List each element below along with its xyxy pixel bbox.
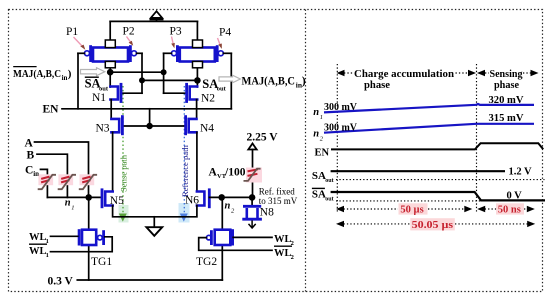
svg-text:50 ns: 50 ns [498,205,521,216]
wire EN horizontal [62,108,231,110]
svg-text:Sensing: Sensing [490,69,524,80]
FTJ device on A [79,174,97,189]
label Cin [25,164,39,178]
wire P3P4 drain to SAout node [196,67,198,87]
svg-text:1: 1 [71,205,74,212]
label n2 [225,201,236,215]
FTJ device on B [58,174,76,189]
junction SAoutbar-P3 [161,69,167,75]
svg-text:WL: WL [29,246,47,257]
ground arrow N8 [249,221,256,229]
VDD supply triangle [150,11,164,21]
svg-text:out: out [325,178,333,184]
pointer arrow P3 [171,37,175,49]
svg-text:A: A [25,137,34,149]
svg-text:Sense path: Sense path [119,154,129,192]
svg-text:in: in [62,74,68,82]
transistor N5 [102,190,113,207]
sense path dashed line [119,86,129,223]
svg-text:TG2: TG2 [196,256,217,268]
wire N1 source to N3 drain [110,100,112,120]
node n2 [218,194,225,201]
waveform n2 [324,124,534,133]
svg-text:Reference path: Reference path [180,145,190,197]
transmission gate TG2 [207,230,233,245]
svg-text:SA: SA [312,188,326,200]
svg-text:N3: N3 [96,122,110,134]
transistor N2 [187,84,198,101]
wire P3 gate riser [163,53,165,93]
svg-text:B: B [27,150,35,162]
duration arrow 50 us [336,203,472,215]
svg-text:N2: N2 [201,93,215,105]
pointer arrow P2 [127,37,134,46]
label WL1bar [29,244,49,259]
label n2 [313,129,324,143]
block arrow to SAoutbar [81,68,105,76]
wire SAoutbar to N1 drain [110,86,118,88]
svg-text:out: out [325,196,333,202]
label n1 [65,198,75,212]
svg-text:TG1: TG1 [91,256,112,268]
svg-text:2.25 V: 2.25 V [247,131,279,143]
label AVT/100 [209,167,246,180]
svg-text:Charge accumulation: Charge accumulation [354,69,454,80]
svg-text:0.3 V: 0.3 V [48,275,74,287]
svg-text:phase: phase [364,80,390,91]
svg-text:EN: EN [315,148,330,159]
transistor pair P3 P4 [164,40,232,68]
svg-text:out: out [217,86,227,93]
transistor N1 [110,84,121,101]
wire N3 N4 gate rail [123,125,185,127]
svg-text:P4: P4 [219,27,231,39]
label SAout timing [312,170,334,184]
svg-text:n: n [313,129,319,140]
svg-text:EN: EN [43,103,60,115]
svg-text:Ref. fixed: Ref. fixed [259,187,295,197]
sensing phase label and arrows [477,69,539,91]
phase boundary dashed guides [336,64,338,212]
svg-text:n: n [65,198,71,209]
svg-text:0 V: 0 V [507,190,523,201]
ground symbol [146,217,162,236]
svg-text:phase: phase [494,80,519,91]
svg-text:P3: P3 [170,26,182,38]
waveform n1 [324,104,534,112]
label Ref fixed to 315 mV [259,187,298,207]
label SAoutbar [85,77,109,93]
wire WL1bar wrap to TG1 right gate [51,237,113,252]
svg-text:300 mV: 300 mV [324,102,357,113]
wire EN riser to P1 gate [77,53,79,109]
svg-text:N4: N4 [200,122,214,134]
svg-text:): ) [302,73,306,87]
pointer arrow P4 [218,38,222,49]
svg-text:300 mV: 300 mV [324,123,357,134]
supply arrow 2.25V [248,144,256,198]
svg-text:to 315 mV: to 315 mV [259,196,298,206]
wire WL2 [233,236,272,238]
wire EN riser to P4 gate [230,53,232,109]
label WL1 [29,232,49,245]
svg-text:out: out [99,85,109,92]
node n1 [85,194,92,201]
svg-text:WL: WL [274,234,292,245]
transmission gate TG1 [79,230,104,245]
wire N4 source to N6 drain [196,132,198,191]
svg-text:50 µs: 50 µs [400,205,423,216]
svg-text:1: 1 [320,114,323,121]
svg-text:P1: P1 [66,26,78,38]
wire 0.3V rail [77,279,222,281]
svg-text:WL: WL [29,232,47,243]
block arrow to MAJ output [219,75,240,83]
wire rail to P1P2 source [109,21,111,41]
svg-text:/100: /100 [224,167,246,179]
svg-text:2: 2 [291,254,294,261]
transistor N3 [111,117,122,134]
svg-text:n: n [225,201,231,212]
wire N5 source to ground rail [113,206,197,217]
charge accumulation phase label and arrows [337,69,477,91]
node SAoutbar [107,69,114,76]
wire input B [37,154,67,197]
svg-text:MAJ(A,B,C: MAJ(A,B,C [242,73,296,87]
waveform EN [331,143,543,149]
svg-text:): ) [68,68,72,80]
wire n2 row [210,196,253,198]
wire n1 to TG1 to 0.3V rail [88,197,90,280]
svg-text:1: 1 [46,252,49,259]
svg-text:in: in [33,170,39,178]
svg-text:C: C [25,164,33,176]
svg-text:N6: N6 [185,194,199,206]
wire rail to P3P4 source [196,21,198,41]
waveform SAout [331,171,545,179]
label n1 [313,107,323,121]
svg-text:P2: P2 [123,26,135,38]
wire N3 source to N5 drain [112,132,114,191]
wire n2 to TG2 to 0.3V rail [221,197,223,280]
svg-text:1.2 V: 1.2 V [509,167,533,178]
label SAoutbar timing [312,188,334,202]
junction n2-N8 [249,194,256,201]
wire P1P2 drain to SAoutbar node [109,67,111,87]
wire N2 source to N4 drain [196,100,198,120]
transistor N6 [197,190,209,207]
reference path dashed line [179,86,191,223]
label MAJ(A,B,Cin) [242,73,306,89]
junction EN-N3N4 [146,123,152,129]
transistor N4 [186,117,197,134]
wire VDD rail [110,20,197,22]
wire to N1 gate [121,92,142,94]
junction SAout-P2 [139,77,145,83]
svg-text:N1: N1 [92,92,106,104]
wire P2 gate riser [141,53,143,93]
FTJ device on Cin [38,174,56,189]
svg-text:320 mV: 320 mV [489,95,524,106]
wire SAoutbar cross to P3 N2 [110,71,163,73]
wire input Cin [41,169,48,197]
label SAout [202,77,226,93]
svg-text:MAJ(A,B,C: MAJ(A,B,C [13,68,61,80]
node SAout [194,77,201,84]
wire SAout cross to P2 N1 [142,79,197,81]
wire WL1 [51,235,78,237]
wire WL2bar wrap to TG2 left gate [199,238,272,251]
wire to N2 gate [164,92,186,94]
svg-text:N8: N8 [260,207,274,219]
pointer arrow P1 [74,37,86,50]
FTJ device AVT/100 [244,168,263,183]
label WL2bar [274,246,294,261]
waveform SAoutbar [331,192,545,201]
wire input A [35,142,89,197]
duration arrow 50 ns [477,203,535,215]
transistor N8 [244,197,261,219]
label MAJ(A,B,Cin) bar [13,67,72,82]
transistor pair P1 P2 [78,40,142,68]
wire EN drop to N3 N4 gates [149,109,151,126]
svg-text:WL: WL [274,248,292,259]
svg-text:n: n [313,107,319,118]
duration arrow 50.05 us [336,218,535,231]
label WL2 [274,234,294,247]
wire FTJ bottom rail to node n1 [47,196,101,198]
svg-text:315 mV: 315 mV [489,113,524,124]
svg-text:SA: SA [312,170,326,182]
svg-text:50.05 µs: 50.05 µs [412,220,454,231]
